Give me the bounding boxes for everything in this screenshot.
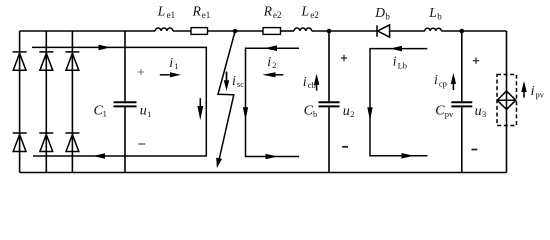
svg-text:b: b xyxy=(313,109,317,119)
svg-text:L: L xyxy=(428,5,437,20)
svg-text:i: i xyxy=(303,75,307,90)
wire Re2 to Le2 xyxy=(281,30,295,32)
svg-text:b: b xyxy=(385,11,390,21)
wire right edge xyxy=(506,31,508,173)
annotation arrow icb (up) xyxy=(314,74,319,91)
mesh loop iLb outline xyxy=(370,49,428,156)
svg-text:sc: sc xyxy=(237,79,244,89)
plus sign u2 xyxy=(341,55,347,61)
inductor Le1 xyxy=(155,28,173,31)
mesh loop i1 bottom arrowhead (left) xyxy=(93,153,105,159)
svg-text:e2: e2 xyxy=(310,10,319,20)
annotation arrow i1 (right) xyxy=(160,72,181,77)
inductor Lb xyxy=(425,28,442,31)
svg-text:e1: e1 xyxy=(167,10,176,20)
node junction dot Cb top xyxy=(327,29,332,34)
svg-text:2: 2 xyxy=(272,60,276,70)
svg-text:1: 1 xyxy=(174,61,178,71)
svg-text:i: i xyxy=(232,74,236,89)
node junction dot between Re1 and Re2 xyxy=(233,29,238,34)
resistor Re2 xyxy=(263,28,281,35)
mesh loop i1 top arrowhead (right) xyxy=(99,45,111,51)
plus sign u3 xyxy=(473,58,479,64)
svg-text:pv: pv xyxy=(445,109,454,119)
node junction dot Cpv top xyxy=(460,29,465,34)
diode Db xyxy=(377,25,390,37)
wire Le1 to Re1 xyxy=(173,30,191,32)
svg-text:u: u xyxy=(475,104,482,119)
svg-text:i: i xyxy=(393,54,397,69)
wire Lb to top-right corner xyxy=(441,30,506,32)
mesh loop i1 outline xyxy=(32,47,206,156)
mesh loop i2 left edge down arrowhead xyxy=(243,107,248,120)
mesh loop iLb bottom arrowhead (right) xyxy=(402,153,414,159)
mesh loop iLb left edge down arrowhead xyxy=(367,107,372,120)
plus sign u1 xyxy=(138,69,144,75)
mesh loop i1 inner down arrow xyxy=(197,98,203,120)
current source diamond ipv xyxy=(497,91,516,109)
dashed box around current source xyxy=(497,75,517,126)
svg-text:e1: e1 xyxy=(202,10,211,20)
rectifier leg 1 wire xyxy=(19,31,21,173)
mesh loop i2 bottom arrowhead (right) xyxy=(266,154,278,160)
svg-text:R: R xyxy=(192,3,202,18)
rectifier diode D6 bottom leg3 xyxy=(65,133,79,152)
annotation arrow ipv (up) xyxy=(521,81,526,98)
annotation arrow i2 (left) xyxy=(262,72,283,77)
svg-text:L: L xyxy=(301,3,310,18)
svg-text:i: i xyxy=(169,56,173,71)
svg-text:b: b xyxy=(437,11,442,21)
capacitor Cb plates xyxy=(319,102,340,106)
svg-text:u: u xyxy=(140,103,147,118)
rectifier diode D2 top leg2 xyxy=(39,52,53,70)
svg-text:i: i xyxy=(531,84,535,99)
svg-text:2: 2 xyxy=(350,109,354,119)
capacitor Cpv branch wires xyxy=(461,31,463,173)
mesh loop i2 top arrowhead (left) xyxy=(264,45,277,51)
svg-text:i: i xyxy=(434,73,438,88)
svg-text:D: D xyxy=(374,5,385,20)
wire Le2 to Db xyxy=(312,30,377,32)
svg-text:Lb: Lb xyxy=(398,60,407,70)
svg-text:L: L xyxy=(157,3,166,18)
rectifier leg 2 wire xyxy=(45,31,47,173)
svg-text:C: C xyxy=(435,104,445,119)
svg-text:i: i xyxy=(267,55,271,70)
minus sign u3 xyxy=(472,149,478,151)
annotation arrow icp (up) xyxy=(451,73,456,90)
minus sign u1 xyxy=(138,143,145,145)
rectifier diode D5 bottom leg2 xyxy=(39,133,53,152)
rectifier diode D3 top leg3 xyxy=(65,52,79,70)
mesh loop i2 outline xyxy=(246,48,300,156)
wire top rail left xyxy=(20,30,156,32)
capacitor Cb branch wires xyxy=(328,31,330,173)
annotation arrow isc (down) xyxy=(224,72,229,92)
svg-text:e2: e2 xyxy=(273,10,282,20)
minus sign u2 xyxy=(342,146,348,148)
rectifier diode D4 bottom leg1 xyxy=(13,133,27,152)
capacitor Cpv plates xyxy=(451,102,472,106)
svg-text:pv: pv xyxy=(536,90,545,100)
wire bottom rail xyxy=(20,172,507,174)
resistor Re1 xyxy=(191,28,208,35)
wire Db to Lb xyxy=(390,30,425,32)
svg-text:R: R xyxy=(263,3,273,18)
capacitor C1 branch wires xyxy=(124,31,126,173)
svg-text:1: 1 xyxy=(147,109,151,119)
svg-text:1: 1 xyxy=(103,109,107,119)
short-circuit lightning bolt isc xyxy=(216,32,235,169)
mesh loop iLb top arrowhead (left) xyxy=(390,46,402,52)
rectifier diode D1 top leg1 xyxy=(13,52,27,70)
svg-text:u: u xyxy=(343,104,350,119)
capacitor C1 plates xyxy=(114,102,137,106)
wire Re1 to Re2 xyxy=(208,30,264,32)
svg-text:3: 3 xyxy=(482,109,486,119)
inductor Le2 xyxy=(294,28,312,31)
svg-text:cb: cb xyxy=(308,80,316,90)
rectifier leg 3 wire xyxy=(71,31,73,173)
svg-text:cp: cp xyxy=(439,79,447,89)
